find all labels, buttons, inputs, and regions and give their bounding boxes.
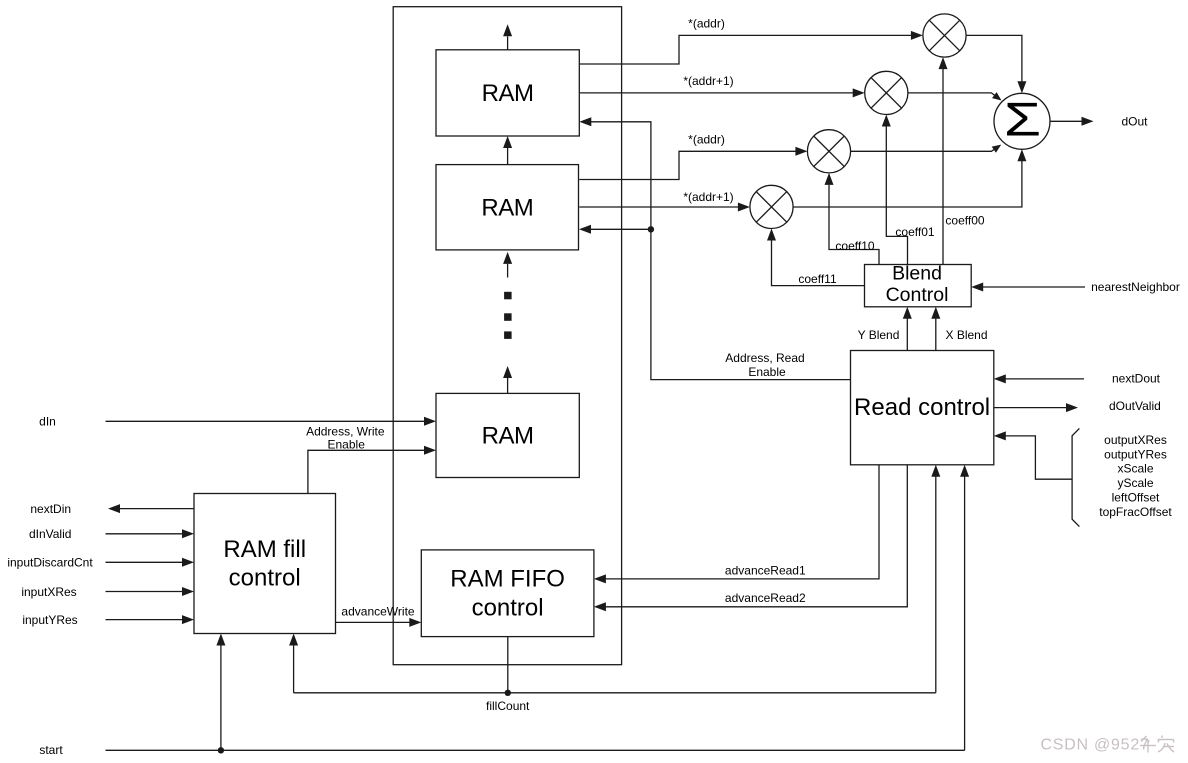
- svg-text:advanceRead2: advanceRead2: [725, 591, 806, 605]
- wire coeff00 Blend to M1: [939, 57, 985, 264]
- svg-text:Blend: Blend: [892, 263, 942, 285]
- multiplier M4 (bottom): [750, 185, 793, 228]
- svg-text:control: control: [229, 565, 301, 592]
- wire *(addr) RAM1 to M1: [579, 17, 923, 65]
- svg-text:dInValid: dInValid: [29, 527, 71, 541]
- svg-text:RAM: RAM: [482, 80, 534, 107]
- svg-text:control: control: [472, 594, 544, 621]
- RAM U3 (third): [436, 393, 579, 477]
- svg-text:inputDiscardCnt: inputDiscardCnt: [7, 556, 93, 570]
- wire M2 output to summer upper-left: [908, 92, 1002, 100]
- wire *(addr+1) RAM1 to M2: [579, 74, 864, 97]
- svg-text:coeff00: coeff00: [945, 214, 984, 228]
- wire advanceRead2: [594, 465, 907, 612]
- wire advanceRead1: [594, 465, 879, 584]
- wire X Blend Read control to Blend Control: [931, 307, 987, 351]
- wire advanceWrite fill control to FIFO control: [336, 605, 422, 627]
- arrow RAM1 up out of bank: [503, 24, 512, 50]
- svg-text:fillCount: fillCount: [486, 699, 530, 713]
- multiplier M1 (top): [923, 14, 966, 57]
- RAM fill control block: [194, 494, 336, 634]
- RAM U2 (second): [436, 165, 579, 250]
- svg-text:nextDout: nextDout: [1112, 371, 1161, 385]
- wire inputXRes into fill control: [21, 585, 194, 599]
- wire inputDiscardCnt into fill control: [7, 556, 194, 570]
- wire Address, Read Enable from Read control to RAM1: [579, 117, 850, 379]
- svg-text:advanceRead1: advanceRead1: [725, 563, 806, 577]
- wire Y Blend Read control to Blend Control: [858, 307, 912, 351]
- wire *(addr+1) RAM2 to M4: [579, 190, 750, 212]
- svg-text:CSDN @9527: CSDN @9527: [1041, 737, 1150, 754]
- arrow RAM3 up to dots: [503, 366, 512, 393]
- svg-text:nextDin: nextDin: [30, 502, 71, 516]
- wire dOut from summer: [1050, 115, 1148, 129]
- svg-text:*(addr+1): *(addr+1): [683, 74, 733, 88]
- wire coeff10 Blend to M3: [825, 173, 880, 265]
- wire fillCount net: [289, 465, 940, 713]
- svg-text:inputXRes: inputXRes: [21, 585, 76, 599]
- svg-text:Read control: Read control: [854, 394, 990, 421]
- svg-text:start: start: [39, 743, 63, 757]
- wire dIn into RAM3: [39, 414, 436, 428]
- multiplier M2: [865, 71, 908, 114]
- wire M1 output to summer top: [966, 35, 1026, 93]
- svg-text:RAM fill: RAM fill: [223, 536, 306, 563]
- svg-text:RAM: RAM: [481, 194, 533, 221]
- svg-text:X Blend: X Blend: [945, 328, 987, 342]
- svg-text:Address, Read: Address, Read: [725, 351, 804, 365]
- wire *(addr) RAM2 to M3: [579, 133, 807, 180]
- wire nextDout into Read control: [994, 371, 1161, 385]
- wire Address, Write Enable from fill control to RAM3: [306, 424, 436, 493]
- wire coeff11 Blend to M4: [767, 229, 865, 287]
- svg-text:*(addr): *(addr): [688, 17, 725, 31]
- watermark CSDN: [1041, 736, 1175, 754]
- svg-text:Enable: Enable: [328, 438, 366, 452]
- wire dInValid into fill control: [29, 527, 194, 541]
- svg-text:xScale: xScale: [1117, 462, 1153, 476]
- svg-text:RAM FIFO: RAM FIFO: [450, 566, 565, 593]
- svg-text:leftOffset: leftOffset: [1112, 491, 1160, 505]
- svg-text:coeff11: coeff11: [798, 272, 837, 286]
- wire start net: [39, 465, 969, 757]
- svg-text:topFracOffset: topFracOffset: [1099, 505, 1172, 519]
- summer SIGMA: [994, 93, 1050, 149]
- svg-text:dOut: dOut: [1121, 115, 1148, 129]
- svg-text:advanceWrite: advanceWrite: [341, 605, 414, 619]
- wire nextDin out of fill control: [30, 502, 194, 516]
- wire coeff01 Blend to M2: [882, 115, 935, 265]
- svg-text:dIn: dIn: [39, 414, 56, 428]
- svg-text:Enable: Enable: [748, 365, 786, 379]
- RAM U1 (top): [436, 50, 579, 136]
- RAM FIFO control block: [421, 550, 594, 637]
- wire nearestNeighbor into Blend Control: [971, 280, 1180, 294]
- bracket for parameter list: [1072, 428, 1172, 526]
- svg-text:outputYRes: outputYRes: [1104, 447, 1167, 461]
- wire branch to RAM2 with junction: [579, 225, 654, 234]
- multiplier M3: [807, 130, 850, 173]
- svg-text:coeff01: coeff01: [895, 225, 934, 239]
- svg-text:Address, Write: Address, Write: [306, 424, 385, 438]
- svg-text:inputYRes: inputYRes: [22, 613, 77, 627]
- svg-text:Control: Control: [886, 284, 949, 306]
- Blend Control block: [865, 265, 972, 307]
- wire M4 output to summer bottom: [793, 149, 1026, 207]
- Read control block: [851, 351, 994, 465]
- ellipsis dots between RAM2 and RAM3: [504, 292, 512, 339]
- wire parameters into Read control: [994, 431, 1072, 479]
- wire dOutValid from Read control: [994, 399, 1161, 413]
- svg-text:Y Blend: Y Blend: [858, 328, 900, 342]
- svg-text:dOutValid: dOutValid: [1109, 399, 1161, 413]
- svg-text:nearestNeighbor: nearestNeighbor: [1091, 280, 1180, 294]
- svg-text:*(addr+1): *(addr+1): [683, 190, 733, 204]
- svg-text:*(addr): *(addr): [688, 133, 725, 147]
- arrow dots to RAM2: [503, 252, 512, 278]
- svg-text:outputXRes: outputXRes: [1104, 433, 1167, 447]
- svg-text:yScale: yScale: [1117, 476, 1153, 490]
- svg-text:Σ: Σ: [1004, 94, 1041, 146]
- svg-text:coeff10: coeff10: [835, 239, 874, 253]
- RAM bank outer box: [393, 7, 621, 665]
- arrow RAM2 to RAM1: [503, 136, 512, 165]
- svg-text:RAM: RAM: [482, 423, 534, 450]
- wire inputYRes into fill control: [22, 613, 194, 627]
- wire M3 output to summer lower-left: [851, 145, 1002, 153]
